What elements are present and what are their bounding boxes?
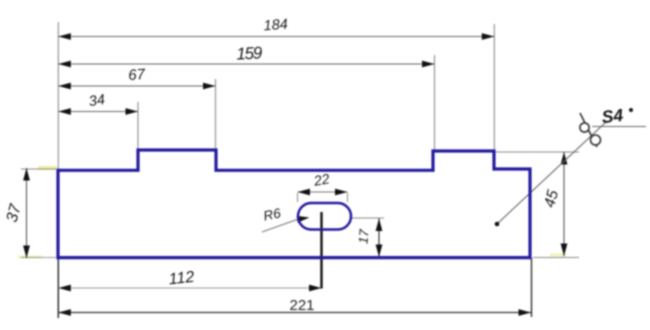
slot obround [298, 203, 351, 230]
svg-text:45: 45 [541, 188, 562, 209]
extension line 22 left [297, 193, 299, 202]
extension line x=434 above tab2 left [434, 55, 436, 150]
scissors glyph stroke [580, 113, 597, 147]
leader S4 diagonal [497, 122, 606, 224]
leader R6 line [262, 220, 297, 233]
extension line x=215 above tab1 right [215, 79, 217, 149]
extension line for 45 bottom [533, 257, 579, 259]
dimension 112 line [58, 287, 321, 289]
slot centerline to 112 dimension [320, 212, 322, 289]
svg-text:37: 37 [4, 201, 25, 224]
dimension 184 line [58, 36, 494, 38]
dimension 159 line [58, 63, 434, 65]
highlight smudge left top corner [38, 166, 57, 170]
svg-text:184: 184 [263, 17, 288, 35]
extension line for 17 top [352, 217, 384, 219]
dimension 34 line [58, 111, 138, 113]
extension line left vertical (x=58, above part) [57, 22, 59, 169]
degree dot [629, 108, 633, 112]
svg-text:112: 112 [168, 269, 195, 289]
extension line for 45 top [496, 151, 579, 153]
extension line x=138 above tab1 [137, 102, 139, 149]
svg-text:S4: S4 [601, 105, 625, 127]
dimension 17 line [378, 219, 380, 258]
svg-text:22: 22 [312, 170, 331, 189]
svg-text:221: 221 [289, 297, 314, 314]
svg-text:67: 67 [128, 66, 146, 84]
part outline [58, 150, 530, 258]
highlight smudge right bottom [550, 254, 566, 257]
extension line x=494 above tab2 right [493, 24, 495, 150]
scissors glyph loop 2 [591, 135, 601, 145]
extension line for 37 bottom [21, 257, 56, 259]
svg-text:159: 159 [236, 43, 263, 63]
dimension 37 line [26, 168, 28, 258]
extension line for 37 top [21, 168, 56, 170]
dimension 221 line [58, 312, 531, 314]
svg-text:17: 17 [355, 228, 371, 244]
dimension 67 line [58, 85, 215, 87]
svg-text:34: 34 [88, 92, 106, 110]
extension line 22 right [347, 193, 349, 202]
dimension 22 line [298, 191, 348, 193]
highlight smudge left bottom [18, 256, 42, 259]
dimension 45 line [563, 152, 565, 256]
scissors glyph loop 1 [580, 123, 589, 132]
svg-text:R6: R6 [262, 205, 282, 223]
leader S4 start dot [495, 222, 500, 227]
S4 underline [592, 126, 646, 128]
extension line left vertical (x=58, below part) [57, 258, 59, 318]
leader R6 arrowhead [297, 214, 310, 222]
extension line x=531 below right edge [531, 258, 533, 317]
